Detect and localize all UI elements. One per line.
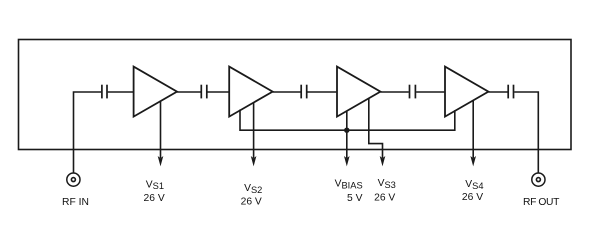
svg-text:26 V: 26 V xyxy=(144,193,165,204)
capacitor C5 xyxy=(508,85,513,99)
amplifier A2 xyxy=(229,67,272,117)
svg-text:RF IN: RF IN xyxy=(62,197,89,208)
svg-text:5 V: 5 V xyxy=(347,193,363,204)
arrowhead VS1 xyxy=(158,156,164,166)
capacitor C1 xyxy=(102,85,107,99)
connector RF IN xyxy=(67,173,80,186)
capacitor C2 xyxy=(201,85,207,99)
wire VS4 feed from A4 xyxy=(472,100,474,158)
wire A2 bias tap xyxy=(240,110,346,131)
svg-text:26 V: 26 V xyxy=(374,193,395,204)
arrowhead VS3 xyxy=(380,156,386,166)
wire C4 to A4 xyxy=(416,91,444,93)
svg-text:VS3: VS3 xyxy=(378,178,396,190)
wire C3 to A3 xyxy=(307,91,336,93)
svg-text:VS1: VS1 xyxy=(146,179,164,191)
svg-text:VBIAS: VBIAS xyxy=(335,179,363,191)
wire C2 to A2 xyxy=(208,91,229,93)
arrowhead VS2 xyxy=(251,156,257,166)
amplifier A4 xyxy=(445,67,488,117)
svg-text:RF OUT: RF OUT xyxy=(523,197,560,208)
wire A1 to C2 xyxy=(177,91,201,93)
capacitor C4 xyxy=(410,85,416,99)
svg-text:26 V: 26 V xyxy=(241,197,262,208)
wire RF IN riser xyxy=(74,92,102,173)
capacitor C3 xyxy=(301,85,307,99)
arrowhead VS4 xyxy=(470,156,476,166)
wire bias line to A4 xyxy=(347,110,454,130)
wire VS2 feed from A2 xyxy=(253,103,255,158)
svg-text:VS2: VS2 xyxy=(244,183,262,195)
amplifier A1 xyxy=(134,67,177,117)
junction node VBIAS xyxy=(344,128,349,133)
wire VBIAS feed from A3 through junction xyxy=(346,111,348,159)
wire C1 to A1 xyxy=(108,91,133,93)
arrowhead VBIAS xyxy=(344,156,350,166)
wire VS1 feed from A1 xyxy=(160,101,162,158)
svg-text:VS4: VS4 xyxy=(465,179,483,191)
wire A3 to C4 xyxy=(380,91,408,93)
wire C5 to RF OUT drop xyxy=(514,92,538,173)
wire A4 to C5 xyxy=(488,91,507,93)
connector RF OUT xyxy=(532,173,545,186)
wire A2 to C3 xyxy=(273,91,301,93)
wire VS3 feed from A3 with jog xyxy=(369,98,383,158)
amplifier A3 xyxy=(337,67,380,117)
module outline box xyxy=(19,40,572,150)
svg-text:26 V: 26 V xyxy=(462,192,483,203)
